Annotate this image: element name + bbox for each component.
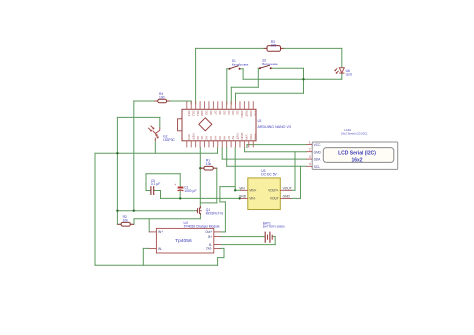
svg-text:Включение: Включение <box>262 62 278 66</box>
svg-text:RX0: RX0 <box>253 134 257 140</box>
svg-text:TX1: TX1 <box>253 111 257 117</box>
svg-text:2: 2 <box>309 148 311 152</box>
svg-text:A2: A2 <box>205 136 209 140</box>
svg-text:TP4056 Charger Module: TP4056 Charger Module <box>184 225 220 229</box>
svg-text:Out+: Out+ <box>205 230 212 234</box>
svg-text:GND: GND <box>240 133 244 141</box>
svg-text:16x2: 16x2 <box>351 158 362 164</box>
svg-text:10k: 10k <box>123 218 129 222</box>
svg-text:A1: A1 <box>200 136 204 140</box>
svg-text:D2: D2 <box>236 111 240 115</box>
svg-text:REF: REF <box>191 134 195 140</box>
svg-text:A3: A3 <box>209 136 213 140</box>
svg-text:Калибровка: Калибровка <box>232 62 249 66</box>
svg-text:DC-DC 5V: DC-DC 5V <box>261 173 277 177</box>
svg-text:10k: 10k <box>206 162 212 166</box>
svg-text:VIN: VIN <box>239 186 245 190</box>
svg-text:Out-: Out- <box>206 247 212 251</box>
svg-text:SDA: SDA <box>314 158 322 162</box>
svg-text:VIN: VIN <box>244 135 248 140</box>
svg-text:D6: D6 <box>218 111 222 115</box>
svg-text:U1: U1 <box>258 119 262 123</box>
svg-text:GND: GND <box>314 150 322 154</box>
svg-text:1000 µF: 1000 µF <box>184 189 196 193</box>
svg-text:0.1 µF: 0.1 µF <box>151 182 160 186</box>
svg-text:D7: D7 <box>213 111 217 115</box>
svg-text:16x2 Serial LCD (I2C): 16x2 Serial LCD (I2C) <box>341 131 367 135</box>
svg-text:L53P3C: L53P3C <box>163 138 176 142</box>
svg-text:D12: D12 <box>191 111 195 117</box>
svg-text:A0: A0 <box>196 136 200 140</box>
svg-text:VIN+: VIN+ <box>249 189 256 193</box>
svg-text:D5: D5 <box>222 111 226 115</box>
svg-text:Tp4056: Tp4056 <box>175 238 192 244</box>
svg-text:MOSFET-N: MOSFET-N <box>206 211 224 215</box>
svg-text:GND: GND <box>239 195 247 199</box>
svg-text:VOUT: VOUT <box>283 186 292 190</box>
svg-text:VOUT: VOUT <box>270 197 279 201</box>
svg-text:A7: A7 <box>227 136 231 140</box>
svg-text:D13: D13 <box>187 111 191 117</box>
svg-text:IN+: IN+ <box>158 230 163 234</box>
svg-text:VIN-: VIN- <box>249 197 255 201</box>
svg-text:TX0: TX0 <box>249 134 253 140</box>
svg-text:D11: D11 <box>196 111 200 117</box>
svg-text:100: 100 <box>159 96 165 100</box>
svg-text:B+: B+ <box>208 235 212 239</box>
svg-text:RX0: RX0 <box>249 111 253 117</box>
svg-text:D10: D10 <box>200 111 204 117</box>
svg-text:VOUT+: VOUT+ <box>268 189 279 193</box>
svg-text:3: 3 <box>309 155 311 159</box>
svg-text:A6: A6 <box>222 136 226 140</box>
svg-text:RST: RST <box>236 134 240 140</box>
svg-text:A4: A4 <box>213 136 217 140</box>
svg-text:SCL: SCL <box>314 165 321 169</box>
svg-text:D9: D9 <box>205 111 209 115</box>
svg-text:RST: RST <box>244 111 248 117</box>
svg-text:4: 4 <box>309 162 311 166</box>
svg-text:+: + <box>174 183 176 187</box>
svg-text:220: 220 <box>271 43 277 47</box>
svg-text:1: 1 <box>309 141 311 145</box>
svg-text:GND: GND <box>240 111 244 119</box>
svg-text:LED: LED <box>346 73 353 77</box>
svg-text:A5: A5 <box>218 136 222 140</box>
svg-text:ARDUINO NANO V3: ARDUINO NANO V3 <box>258 125 291 129</box>
svg-text:IN-: IN- <box>158 247 162 251</box>
svg-text:VCC: VCC <box>314 143 322 147</box>
svg-text:D8: D8 <box>209 111 213 115</box>
svg-text:GND: GND <box>283 195 291 199</box>
svg-text:D4: D4 <box>227 111 231 115</box>
svg-text:3V3: 3V3 <box>187 134 191 140</box>
svg-text:BATTERY18650: BATTERY18650 <box>263 225 285 229</box>
svg-text:D3: D3 <box>231 111 235 115</box>
svg-text:LCD Serial (I2C): LCD Serial (I2C) <box>338 151 376 157</box>
